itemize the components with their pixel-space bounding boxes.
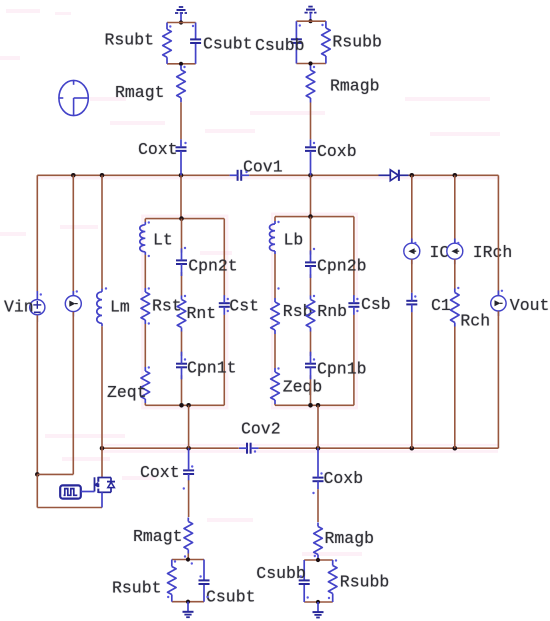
wire left box middle seg2 — [181, 272, 183, 296]
resistor Zeqt — [141, 367, 150, 403]
wire top-left box left side — [166, 23, 168, 64]
label Cpn2b — [317, 257, 367, 276]
ground (top left) — [175, 7, 187, 23]
svg-text:Cov2: Cov2 — [241, 420, 281, 439]
wire left box to bottom bus — [188, 405, 190, 448]
svg-text:Rch: Rch — [460, 312, 490, 331]
node top-left box bottom — [179, 62, 183, 66]
wire top-left box right side — [195, 23, 197, 64]
capacitor Cov1 — [230, 170, 250, 181]
node left box bottom out — [186, 403, 191, 408]
svg-text:Coxt: Coxt — [140, 463, 180, 482]
timing symbol (quarter clock) — [59, 80, 88, 115]
label Vout — [510, 296, 550, 315]
wire bottom bus right segment — [259, 447, 499, 449]
node IC-top junction — [410, 173, 415, 178]
label Rsubb (bottom) — [340, 573, 390, 592]
node bottom-left box bottom — [186, 600, 190, 604]
voltage source Vin — [30, 291, 45, 322]
svg-text:Cpn2b: Cpn2b — [317, 257, 367, 276]
capacitor Csubb (bottom) — [299, 580, 310, 584]
diode D1 — [379, 170, 409, 181]
svg-text:Rsubt: Rsubt — [112, 579, 162, 598]
capacitor Coxt (bottom) — [183, 448, 194, 480]
wire left box middle seg3 — [181, 331, 183, 356]
label Rnt — [187, 304, 217, 323]
resistor Rnt — [177, 296, 186, 332]
capacitor Cst — [219, 295, 230, 315]
wire probe to Vin horizontal — [37, 473, 73, 475]
wire left box middle seg4 — [181, 375, 183, 405]
label C1 — [431, 296, 451, 315]
capacitor Cpn2b — [305, 250, 316, 278]
wire IRch branch upper — [454, 175, 456, 243]
wire left box left edge seg2 — [144, 255, 146, 289]
wire top-right box right side — [325, 21, 327, 63]
label Rmagt (bottom) — [133, 527, 183, 546]
label Rsubt (top) — [105, 31, 155, 50]
node top-right box bottom — [308, 61, 312, 65]
svg-text:IRch: IRch — [473, 243, 513, 262]
svg-text:Rnb: Rnb — [317, 302, 347, 321]
wire bottom-left box right side — [203, 560, 205, 602]
label Vin — [4, 298, 34, 317]
wire right box right edge seg1 — [353, 217, 355, 296]
label Coxt (top) — [138, 140, 178, 159]
wire top bus to right box — [310, 175, 312, 216]
label Rsubt (bottom) — [112, 579, 162, 598]
wire bottom-right box top edge — [304, 559, 333, 561]
wire right box right edge seg2 — [353, 315, 355, 406]
capacitor C1 — [406, 293, 417, 313]
label Rmagb (bottom) — [325, 529, 375, 548]
wire left box bottom edge — [145, 404, 224, 406]
capacitor Cov2 — [239, 443, 259, 454]
pulse source Vpulse — [60, 485, 81, 498]
wire Rmagt to Coxt — [180, 102, 182, 139]
capacitor Csb — [348, 295, 359, 315]
wire right box middle seg2 — [310, 274, 312, 296]
node top-right box top — [308, 19, 312, 23]
node Lm-top junction — [100, 173, 105, 178]
svg-text:Csubt: Csubt — [206, 588, 256, 607]
label IRch — [473, 243, 513, 262]
svg-text:Zeqb: Zeqb — [283, 378, 323, 397]
wire top-left box top edge — [167, 22, 196, 24]
inductor Lm — [97, 289, 102, 327]
wire right box left edge seg1 — [274, 217, 276, 222]
wire right box to bottom bus — [317, 405, 319, 448]
wire C1 to bottom bus — [411, 312, 413, 448]
label Coxb (top) — [317, 142, 357, 161]
inductor Lt — [140, 222, 145, 255]
resistor Rch — [451, 289, 460, 327]
wire bottom bus left segment — [102, 447, 239, 449]
wire right box left edge seg4 — [274, 404, 276, 406]
wire right box middle seg4 — [310, 375, 312, 405]
svg-text:Lm: Lm — [110, 298, 130, 317]
capacitor Cpn1t — [176, 352, 187, 380]
capacitor Coxb (bottom) — [313, 448, 324, 489]
label Csubt (bottom) — [206, 588, 256, 607]
svg-text:Coxb: Coxb — [317, 142, 357, 161]
wire left box left edge seg1 — [144, 219, 146, 222]
wire bottom-right box left side — [303, 560, 305, 602]
wire right box top edge — [275, 216, 354, 218]
wire Rmagt to box (bottom left) — [187, 554, 189, 560]
node top-left box top — [179, 20, 183, 24]
svg-text:Vin: Vin — [4, 298, 34, 317]
node left box top junction — [179, 216, 184, 221]
svg-text:Cst: Cst — [229, 297, 259, 316]
wire probe branch upper — [72, 175, 74, 295]
wire bottom-left horizontal — [37, 507, 102, 509]
svg-text:Csb: Csb — [361, 295, 391, 314]
svg-text:Zeqt: Zeqt — [107, 383, 147, 402]
wire bottom-left box bottom edge — [172, 601, 204, 603]
wire right box left edge seg2 — [274, 254, 276, 298]
wire right box bottom edge — [275, 404, 354, 406]
wire Vin branch lower — [36, 315, 38, 474]
node Coxb-top junction — [308, 173, 313, 178]
svg-text:C1: C1 — [431, 296, 451, 315]
resistor Rsubb (bottom) — [328, 566, 337, 594]
node MOSFET-drain junction — [100, 446, 105, 451]
wire Rmagb to box (bottom right) — [317, 559, 319, 561]
label Csubb (bottom) — [256, 564, 306, 583]
svg-text:Rsubb: Rsubb — [340, 573, 390, 592]
current probe VP1 — [65, 291, 81, 317]
wire Rmagb to Coxb — [310, 103, 312, 140]
wire left box top edge — [145, 218, 224, 220]
resistor Rst — [141, 288, 150, 324]
resistor Zeqb — [271, 368, 280, 404]
label Cov2 — [241, 420, 281, 439]
resistor Rmagt (bottom) — [184, 518, 193, 554]
label Rch — [460, 312, 490, 331]
wire bottom-right box right side — [332, 560, 334, 602]
wire right box left edge seg3 — [274, 334, 276, 368]
svg-text:Cpn1t: Cpn1t — [187, 359, 237, 378]
label Rmagb (top) — [330, 77, 380, 96]
wire IC branch upper — [411, 175, 413, 243]
label Lt — [153, 231, 173, 250]
wire Vout branch upper — [497, 175, 499, 295]
wire gate lead — [81, 491, 95, 493]
node bottom-right box top — [316, 558, 320, 562]
ground (bottom left) — [183, 602, 194, 618]
label Coxb (bottom) — [324, 469, 364, 488]
svg-text:Coxt: Coxt — [138, 140, 178, 159]
label Cov1 — [243, 157, 283, 176]
node right box bottom middle — [308, 403, 313, 408]
wire left box right edge seg1 — [223, 219, 225, 296]
svg-text:Csubb: Csubb — [256, 564, 306, 583]
wire left box middle seg1 — [181, 219, 183, 253]
label Csubb (top) — [255, 36, 305, 55]
label Cst — [229, 297, 259, 316]
label Rnb — [317, 302, 347, 321]
svg-text:Rsubb: Rsubb — [332, 33, 382, 52]
svg-text:Lt: Lt — [153, 231, 173, 250]
resistor Rsubb (top) — [322, 28, 331, 56]
resistor Rsb — [271, 298, 280, 334]
capacitor Cpn2t — [176, 248, 187, 276]
wire Vin to MOSFET-source vertical — [36, 474, 38, 507]
current source IC — [404, 239, 420, 265]
wire left box left edge seg4 — [144, 403, 146, 406]
wire IRch to Rch — [454, 259, 456, 288]
capacitor Csubt (top) — [190, 39, 201, 43]
pin-end markers — [40, 24, 503, 599]
wire bottom-right box bottom edge — [304, 601, 333, 603]
node Coxb-bottom junction — [316, 446, 321, 451]
ground (bottom right) — [313, 602, 324, 618]
wire MOSFET drain — [101, 448, 103, 477]
wire Vin branch upper — [36, 175, 38, 299]
node right box bottom out — [316, 403, 321, 408]
resistor Rmagt (top) — [177, 65, 186, 102]
wire left box right edge seg2 — [223, 315, 225, 406]
label Zeqb — [283, 378, 323, 397]
wire left box left edge seg3 — [144, 324, 146, 367]
node Coxt-top junction — [179, 173, 184, 178]
node Rch-bottom junction — [453, 446, 458, 451]
wire top-right box bottom edge — [296, 63, 326, 65]
capacitor Coxt (top) — [176, 139, 187, 175]
inductor Lb — [270, 221, 275, 254]
ground (top right) — [305, 7, 317, 22]
capacitor Csubt (bottom) — [199, 580, 210, 584]
svg-text:Rnt: Rnt — [187, 304, 217, 323]
label Rmagt (top) — [115, 83, 165, 102]
label Cpn1b — [317, 360, 367, 379]
node IRch-top junction — [453, 173, 458, 178]
node bottom-left box top — [186, 557, 190, 561]
label IC — [430, 243, 450, 262]
svg-text:Cpn1b: Cpn1b — [317, 360, 367, 379]
capacitor Cpn1b — [305, 352, 316, 380]
resistor Rnb — [306, 296, 315, 332]
label Cpn1t — [187, 359, 237, 378]
resistor Rsubt (bottom) — [168, 567, 177, 595]
label Csubt (top) — [203, 35, 253, 54]
wire Coxb to Rmagb (bottom) — [317, 489, 319, 522]
node left box bottom middle — [179, 403, 184, 408]
svg-text:Coxb: Coxb — [324, 469, 364, 488]
svg-text:Csubb: Csubb — [255, 36, 305, 55]
wire top-right box top edge — [296, 20, 326, 22]
wire probe branch lower — [72, 312, 74, 475]
svg-text:Vout: Vout — [510, 296, 550, 315]
voltage probe Vout — [491, 291, 506, 317]
label Cpn2t — [188, 257, 238, 276]
wire IC to C1 — [411, 259, 413, 293]
svg-text:Cov1: Cov1 — [243, 157, 283, 176]
svg-text:Lb: Lb — [284, 231, 304, 250]
wire top-left box bottom edge — [167, 63, 196, 65]
wire top bus left segment — [37, 174, 229, 176]
resistor Rmagb (bottom) — [314, 523, 323, 559]
svg-text:Rmagt: Rmagt — [115, 83, 165, 102]
node probe-top junction — [71, 173, 76, 178]
wire Lm branch lower — [101, 326, 103, 448]
wire bottom-left box left side — [171, 560, 173, 602]
svg-text:Rmagt: Rmagt — [133, 527, 183, 546]
resistor Rmagb (top) — [306, 66, 315, 103]
wire top bus right segment — [409, 174, 499, 176]
node Vin-probe junction — [35, 472, 40, 477]
label Lb — [284, 231, 304, 250]
wire bottom-left box top edge — [172, 559, 204, 561]
node C1-bottom junction — [410, 446, 415, 451]
transistor M1 (NMOS with body diode) — [94, 477, 115, 508]
node right box top junction — [308, 214, 313, 219]
label Rsb — [283, 302, 313, 321]
svg-text:Csubt: Csubt — [203, 35, 253, 54]
resistor Rsubt (top) — [163, 29, 172, 57]
wire Rch to bottom bus — [454, 327, 456, 449]
wire top-right box left side — [295, 21, 297, 63]
wire top bus middle segment — [249, 174, 378, 176]
wire right box middle seg3 — [310, 331, 312, 356]
label Lm — [110, 298, 130, 317]
label Zeqt — [107, 383, 147, 402]
node bottom-right box bottom — [316, 600, 320, 604]
label Coxt (bottom) — [140, 463, 180, 482]
capacitor Coxb (top) — [305, 139, 316, 175]
svg-text:Rsubt: Rsubt — [105, 31, 155, 50]
label Csb — [361, 295, 391, 314]
label Rsubb (top) — [332, 33, 382, 52]
svg-text:Rmagb: Rmagb — [330, 77, 380, 96]
svg-text:Cpn2t: Cpn2t — [188, 257, 238, 276]
wire Vout branch lower — [497, 311, 499, 448]
wire Lm branch upper — [101, 175, 103, 289]
capacitor Csubb (top) — [291, 39, 302, 43]
wire top bus to left box — [180, 175, 182, 218]
current source IRch — [447, 239, 463, 265]
node Coxt-bottom junction — [186, 446, 191, 451]
wire Coxt to Rmagt (bottom) — [188, 480, 190, 517]
label Rst — [152, 297, 182, 316]
svg-text:Rmagb: Rmagb — [325, 529, 375, 548]
wire right box middle seg1 — [310, 217, 312, 255]
